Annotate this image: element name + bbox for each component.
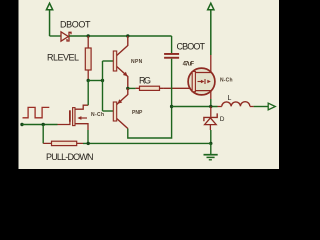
diode D (zener freewheel) <box>204 107 217 131</box>
svg-text:N-Ch: N-Ch <box>220 78 233 84</box>
wire RG to gate (mosfet gate pin) <box>164 87 193 89</box>
port output arrow <box>268 103 275 110</box>
diode DBOOT (schottky) <box>61 32 71 41</box>
wire source drop <box>87 130 89 143</box>
transistor NPN <box>113 36 128 88</box>
node emitter junction <box>126 87 129 90</box>
node input wire end <box>20 123 23 126</box>
wire diode to ground rail <box>210 130 212 143</box>
svg-text:L: L <box>228 95 232 102</box>
wire mosfet source to switch node <box>210 99 212 107</box>
wire ground rail <box>83 142 211 144</box>
wire drain riser <box>87 81 89 106</box>
resistor RG <box>136 86 164 90</box>
resistor PULL-DOWN <box>43 141 83 145</box>
ground symbol <box>204 143 218 159</box>
node ground junction <box>209 142 212 145</box>
node base junction <box>101 79 104 82</box>
svg-text:DBOOT: DBOOT <box>60 20 91 30</box>
mosfet Q2 N-Ch (small, level shift) <box>58 105 89 130</box>
node switch junction <box>209 105 212 108</box>
svg-text:RG: RG <box>139 76 151 86</box>
svg-text:CBOOT: CBOOT <box>177 41 206 51</box>
wire input to gate <box>22 124 58 126</box>
wire PNP collector return <box>128 107 172 139</box>
svg-text:RLEVEL: RLEVEL <box>47 53 79 63</box>
wire PNP base stub <box>103 110 114 112</box>
power symbol VBOOT (left arrow) <box>46 3 52 36</box>
wire switch rail <box>172 106 218 108</box>
schematic background <box>19 0 280 169</box>
inductor L <box>218 102 254 107</box>
node CBOOT-switch junction <box>170 105 173 108</box>
wire emitter to RG <box>128 87 136 89</box>
pulse waveform annotation <box>23 107 50 117</box>
node RLEVEL-drain junction <box>87 79 90 82</box>
svg-text:D: D <box>220 116 225 123</box>
node source-ground junction <box>87 142 90 145</box>
node rail-NPN collector <box>126 34 129 37</box>
wire base node <box>88 80 102 82</box>
transistor PNP <box>113 88 128 128</box>
node rail-RLEVEL <box>87 34 90 37</box>
power symbol VIN (right arrow) <box>208 3 214 55</box>
wire NPN base stub <box>103 60 114 62</box>
svg-text:NPN: NPN <box>131 59 143 65</box>
svg-text:PNP: PNP <box>132 110 143 116</box>
wire rail top left <box>50 35 62 37</box>
node input-pulldown junction <box>42 123 45 126</box>
svg-text:N-Ch: N-Ch <box>91 112 104 118</box>
resistor RLEVEL <box>85 36 91 81</box>
wire pulldown drop <box>42 125 44 144</box>
svg-text:47uF: 47uF <box>183 62 195 68</box>
wire inductor to output <box>254 106 269 108</box>
wire top rail <box>69 35 172 37</box>
wire base vertical <box>102 61 104 111</box>
capacitor CBOOT <box>164 36 179 107</box>
mosfet Q1 N-Ch (power, circled) <box>188 55 215 99</box>
svg-text:PULL-DOWN: PULL-DOWN <box>46 152 94 162</box>
